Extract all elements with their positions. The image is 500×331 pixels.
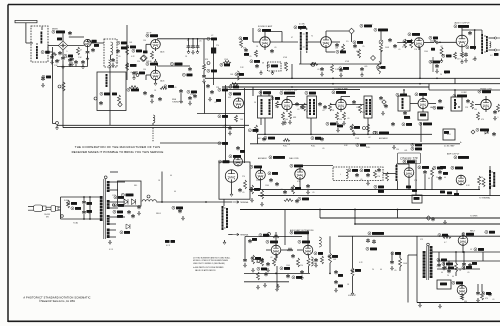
label C40: [429, 60, 440, 63]
svg-text:150: 150: [480, 177, 483, 179]
svg-text:6K6: 6K6: [464, 301, 467, 303]
wire section top 2: [338, 235, 500, 237]
svg-text:.05: .05: [394, 270, 396, 272]
wire bus mid 5: [355, 223, 500, 225]
ground: [461, 60, 464, 64]
capacitor C115b: [438, 176, 442, 180]
resistor R79: [367, 124, 370, 132]
svg-text:6BE6: 6BE6: [430, 107, 434, 109]
value label: [362, 46, 364, 48]
ground: [252, 268, 255, 272]
output transformer T4 secondary: [486, 36, 489, 52]
wire: [62, 60, 64, 66]
selenium rectifier M1: [124, 199, 136, 205]
svg-text:.05: .05: [322, 148, 324, 150]
wire to speaker: [489, 49, 496, 51]
value label: [446, 56, 451, 58]
resistor R64b: [351, 268, 354, 276]
wire osc drop: [109, 68, 111, 123]
value label: [402, 47, 407, 49]
resistor R39: [477, 112, 480, 120]
label R13: [239, 37, 248, 40]
svg-text:20: 20: [436, 177, 438, 179]
value label: [115, 62, 118, 64]
wire AVC bus: [63, 127, 245, 129]
volume control R22: [311, 63, 315, 67]
capacitor C21: [202, 74, 206, 78]
text AM radio: [379, 137, 388, 140]
label fuse: [71, 207, 81, 210]
ground: [335, 288, 338, 292]
label R55: [298, 197, 309, 200]
value label: [467, 272, 469, 274]
value label: [57, 60, 60, 62]
svg-text:MIXER: MIXER: [52, 29, 58, 31]
IF T5 secondary: [268, 99, 271, 115]
wire: [443, 261, 445, 266]
ground: [109, 240, 112, 244]
svg-text:1500: 1500: [286, 265, 290, 267]
value label: [275, 107, 278, 109]
label C49: [420, 114, 426, 117]
text 2nd sound IF: [280, 88, 299, 91]
core: [484, 51, 485, 53]
label C97: [485, 231, 495, 234]
junction: [83, 218, 85, 220]
junction: [439, 41, 441, 43]
value label: [287, 144, 290, 146]
junction: [291, 86, 293, 88]
label F1: [165, 240, 170, 243]
test point TP6: [140, 56, 146, 62]
resistor R28b: [461, 52, 464, 58]
value label: [364, 66, 367, 68]
junction: [89, 196, 91, 198]
label sec: [114, 204, 124, 207]
wire: [341, 96, 350, 98]
resistor R77: [62, 82, 65, 91]
wire: [380, 29, 382, 36]
radio output transformer T11 primary: [221, 206, 224, 230]
svg-text:20: 20: [440, 74, 442, 76]
label C71: [87, 202, 93, 205]
oscillator coil shield: [104, 39, 117, 67]
label C50: [433, 106, 443, 109]
wire: [284, 62, 286, 64]
value label: [497, 117, 498, 119]
label X4: [120, 231, 130, 234]
label L6: [396, 93, 407, 96]
value label: [380, 269, 382, 271]
capacitor C35: [388, 38, 392, 42]
wire: [99, 196, 102, 198]
label tuner: [375, 131, 389, 134]
capacitor C12: [143, 91, 147, 95]
output transformer T9: [489, 170, 492, 189]
chassis label box: [398, 153, 421, 164]
label T6: [305, 91, 316, 94]
capacitor C24: [236, 146, 240, 150]
text audio amp output: [290, 229, 314, 232]
label C10: [100, 92, 110, 95]
value label: [347, 284, 350, 286]
wire: [481, 29, 482, 31]
svg-text:470: 470: [485, 298, 488, 300]
label R27: [442, 54, 452, 57]
capacitor C109: [158, 97, 162, 101]
test point TP2: [349, 28, 355, 34]
terminal arrow 2: [233, 233, 249, 236]
value label: [262, 63, 264, 65]
resistor R34: [329, 103, 332, 111]
resistor R59: [252, 255, 255, 264]
svg-text:470: 470: [481, 119, 484, 121]
wire V8 cathode: [286, 110, 288, 112]
value label: [444, 177, 446, 179]
svg-text:.05: .05: [442, 107, 444, 109]
wire: [397, 163, 410, 165]
label R43b: [337, 125, 343, 128]
wire: [161, 172, 163, 203]
label J3: [412, 189, 417, 192]
value label: [317, 69, 319, 71]
output transformer T9 sec: [493, 172, 496, 187]
wire: [41, 27, 43, 31]
top border frame: [8, 4, 500, 6]
value label: [185, 56, 188, 58]
value label: [322, 110, 324, 112]
value label: [396, 149, 399, 151]
wire AM bus 1: [232, 83, 500, 85]
junction: [458, 106, 460, 108]
label C86: [437, 258, 447, 261]
tube V4 sound IF amplifier: [260, 37, 270, 47]
capacitor C18: [187, 45, 191, 49]
value label: [428, 178, 430, 180]
test point TP3: [371, 56, 376, 61]
value label: [359, 262, 363, 264]
svg-text:.05: .05: [130, 72, 132, 74]
value label: [158, 180, 161, 182]
value label: [143, 40, 146, 42]
capacitor C47: [384, 104, 388, 108]
svg-text:47: 47: [187, 40, 189, 42]
svg-text:SEL: SEL: [134, 185, 137, 187]
value label: [335, 69, 339, 71]
resistor R74: [273, 258, 276, 266]
ground: [444, 220, 447, 224]
wire: [180, 93, 182, 99]
capacitor C51: [466, 99, 470, 103]
wire AM bus 2: [222, 86, 429, 88]
capacitor C68: [438, 170, 442, 174]
resistor R13: [240, 40, 243, 48]
wire V11 plate: [485, 96, 487, 99]
svg-text:L: L: [340, 174, 341, 176]
wire: [300, 51, 302, 57]
resistor R35: [336, 112, 339, 120]
text label: [436, 266, 438, 268]
wire: [461, 294, 463, 296]
wire sec: [109, 216, 125, 218]
value label: [131, 56, 135, 58]
wire: [303, 26, 305, 29]
wire: [352, 276, 354, 291]
wire: [424, 42, 434, 44]
label V7: [454, 25, 469, 28]
wire: [252, 28, 254, 35]
wire: [87, 54, 89, 66]
value label: [372, 269, 374, 271]
value label: [394, 270, 396, 272]
capacitor C72: [82, 210, 86, 214]
resistor R38: [471, 101, 474, 109]
label C10b: [112, 93, 117, 96]
label R17: [250, 60, 260, 63]
capacitor C108: [188, 96, 192, 100]
wire V10 grid: [410, 103, 418, 105]
resistor R5: [230, 83, 238, 86]
resistor R30: [276, 101, 279, 108]
ground: [336, 121, 339, 125]
tuner coil L12: [105, 74, 108, 87]
wire: [489, 189, 491, 196]
label C89: [462, 266, 472, 269]
label V21: [229, 155, 241, 158]
ground: [223, 240, 226, 244]
label R47: [411, 143, 422, 146]
wire: [203, 39, 205, 64]
wire: [463, 252, 465, 262]
ground: [315, 263, 318, 267]
wire: [291, 64, 293, 78]
wire sec: [109, 223, 116, 225]
label R16: [267, 64, 278, 67]
wire: [380, 52, 382, 64]
resistor R6: [126, 46, 129, 55]
value label: [465, 107, 469, 109]
capacitor C8: [81, 60, 85, 64]
wire: [281, 32, 283, 43]
value label: [274, 47, 276, 49]
value label: [256, 46, 259, 48]
resistor R22 track: [310, 63, 318, 66]
value label: [347, 118, 349, 120]
ground: [112, 63, 115, 67]
wire V8 plate: [286, 97, 288, 100]
svg-text:270: 270: [216, 45, 219, 47]
ground: [353, 132, 356, 136]
wire: [276, 255, 278, 258]
wire V3 plate: [157, 65, 184, 67]
label V17: [298, 240, 310, 243]
ground: [182, 216, 185, 220]
capacitor C53b: [262, 137, 266, 141]
wire: [396, 164, 398, 165]
wire AC loop left: [60, 197, 62, 219]
wire: [223, 199, 225, 206]
wire: [287, 96, 295, 98]
value label: [459, 270, 462, 272]
capacitor C106: [150, 94, 154, 98]
label C5: [121, 47, 127, 50]
wire: [300, 165, 333, 167]
capacitor C46: [379, 96, 383, 100]
ground: [282, 121, 285, 125]
ground: [138, 211, 141, 215]
power transformer secondary 4: [106, 229, 110, 239]
text label: [146, 61, 153, 63]
capacitor C78: [260, 258, 264, 262]
resistor R37: [359, 104, 362, 113]
junction: [225, 142, 227, 144]
text note line 5: [195, 269, 216, 272]
svg-text:FIELD: FIELD: [156, 213, 162, 215]
wire: [268, 93, 270, 97]
value label: [356, 107, 360, 109]
resistor R65: [261, 258, 264, 266]
capacitor C85: [390, 260, 394, 264]
wire: [36, 43, 38, 45]
wire: [48, 45, 59, 47]
text footer line 1: [23, 296, 90, 299]
junction: [454, 89, 456, 91]
value label: [355, 138, 360, 140]
tube V11 FM-AM converter: [481, 99, 491, 109]
text note line 4: [193, 266, 224, 269]
terminal arrow 1: [233, 201, 249, 204]
resistor R50: [261, 190, 264, 199]
PSU transformer primary: [422, 251, 426, 278]
wire: [244, 237, 246, 259]
wire: [203, 71, 205, 75]
junction: [419, 83, 421, 85]
IF transformer T6 can: [307, 96, 317, 118]
value label: [457, 59, 461, 61]
tube V10 AM converter: [418, 99, 428, 109]
wire: [397, 181, 399, 190]
wire sec: [109, 181, 125, 183]
resistor R1: [77, 47, 80, 55]
capacitor C7: [74, 60, 78, 64]
svg-text:.05: .05: [322, 110, 324, 112]
wire: [53, 123, 56, 125]
svg-text:40: 40: [174, 191, 176, 193]
resistor R75: [160, 87, 167, 90]
wire: [482, 252, 484, 261]
ground: [351, 291, 354, 295]
RF choke L3: [153, 115, 155, 123]
svg-text:1ST IF: 1ST IF: [146, 33, 152, 35]
value label: [404, 150, 407, 152]
value label: [297, 181, 300, 183]
wire band stub: [257, 134, 259, 144]
label row3: [454, 193, 459, 196]
resistor R58: [244, 180, 247, 189]
wire: [455, 252, 457, 263]
svg-text:FM AM CONV: FM AM CONV: [480, 87, 492, 90]
label R8: [126, 64, 137, 67]
shielded component: [211, 48, 216, 54]
label SW: [444, 131, 449, 134]
capacitor C59: [269, 178, 273, 182]
wire: [75, 64, 77, 66]
svg-text:AUDIO OUTPUT: AUDIO OUTPUT: [454, 21, 470, 24]
label R43: [326, 122, 336, 125]
value label: [47, 43, 49, 45]
IF T5 primary: [260, 99, 263, 115]
ground: [42, 83, 45, 87]
svg-text:DIAL CORD: DIAL CORD: [289, 157, 299, 160]
value label: [88, 204, 90, 206]
text footer line 2: [39, 300, 76, 303]
IF T7 secondary: [369, 99, 372, 115]
text conv: [461, 92, 467, 94]
radio output box: [219, 162, 250, 199]
oscillator coil L6: [401, 98, 404, 109]
text b boost: [348, 295, 356, 297]
label C31: [353, 41, 363, 44]
value label: [333, 259, 337, 261]
wire bus mid 4: [320, 217, 500, 219]
PSU transformer secondary: [429, 246, 433, 278]
resistor R12: [223, 61, 231, 64]
capacitor C100: [50, 55, 54, 59]
svg-text:CONV: CONV: [461, 92, 467, 94]
value label: [440, 74, 442, 76]
wire: [253, 41, 260, 43]
label dial lamp: [269, 156, 285, 159]
text sound IF amp: [258, 25, 273, 28]
value label: [154, 90, 157, 92]
resistor R15: [255, 50, 258, 57]
wire V13 cathode: [299, 179, 301, 189]
svg-text:5%: 5%: [346, 41, 349, 43]
label C9: [42, 75, 51, 78]
terminal ref L9: [147, 195, 150, 198]
svg-text:.05: .05: [467, 272, 469, 274]
svg-text:Chassis 12F: Chassis 12F: [400, 157, 419, 161]
text label: [484, 232, 486, 234]
value label: [78, 57, 82, 59]
svg-text:.02: .02: [280, 189, 282, 191]
wire: [275, 232, 277, 237]
value label: [362, 112, 366, 114]
converter coil can: [451, 97, 462, 111]
capacitor C23: [244, 48, 248, 52]
junction: [291, 77, 293, 79]
wire long B+ bus: [205, 77, 500, 79]
resistor R80: [386, 172, 389, 181]
wire vertical drop: [352, 236, 354, 268]
resistor R2: [52, 53, 57, 56]
junction: [354, 209, 356, 211]
svg-text:270: 270: [57, 60, 60, 62]
svg-text:.05: .05: [249, 56, 251, 58]
ground: [180, 99, 183, 103]
label C110: [338, 285, 343, 288]
capacitor C19b: [196, 45, 200, 49]
ground: [391, 266, 394, 270]
power transformer core 2: [105, 179, 107, 239]
text pull 2: [311, 146, 315, 148]
svg-text:6AU6: 6AU6: [160, 80, 164, 83]
svg-text:1ST AM IF AMP: 1ST AM IF AMP: [334, 87, 348, 90]
wire: [478, 186, 480, 190]
label audio output 2: [368, 232, 384, 235]
value label: [474, 109, 477, 111]
wire: [438, 252, 440, 263]
